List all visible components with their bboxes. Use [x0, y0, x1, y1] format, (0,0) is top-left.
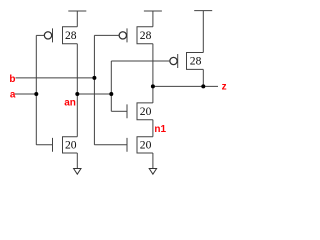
- svg-text:28: 28: [65, 29, 77, 42]
- wire b vertical column: [93, 35, 95, 144]
- junction dot node z right: [201, 84, 205, 88]
- svg-text:28: 28: [190, 55, 202, 68]
- svg-text:a: a: [10, 89, 16, 100]
- junction dot node an at inverter output: [75, 92, 79, 96]
- wire a vertical column: [35, 35, 37, 144]
- svg-text:20: 20: [65, 138, 77, 151]
- nmos N2 channel (upper stacked): [137, 103, 153, 120]
- wire b input: [16, 77, 95, 79]
- pmos P3 gate plate: [177, 54, 179, 68]
- nmos N1 channel: [63, 137, 78, 153]
- junction dot node z left: [151, 84, 155, 88]
- pmos P1 gate bubble: [44, 32, 51, 39]
- wire b to P2 gate: [94, 34, 119, 36]
- ground symbol 2: [149, 169, 156, 175]
- pmos P1 gate plate: [52, 28, 54, 42]
- svg-text:b: b: [9, 74, 15, 85]
- power vdd T-bar 3: [194, 11, 212, 53]
- pmos P3 channel: [187, 53, 204, 70]
- wire an to P3 gate: [111, 60, 170, 62]
- wire P1 source to N1 drain: [76, 44, 78, 137]
- power vdd T-bar 2: [144, 11, 162, 27]
- wire N1 source to ground: [76, 153, 78, 169]
- wire a to N1 gate: [36, 144, 52, 146]
- junction dot node an at gate column: [109, 92, 113, 96]
- svg-text:28: 28: [140, 29, 152, 42]
- junction dot node a: [34, 92, 38, 96]
- svg-text:z: z: [222, 81, 227, 92]
- wire a input: [15, 93, 36, 95]
- wire b to N3 gate: [94, 144, 127, 146]
- svg-text:20: 20: [140, 138, 152, 151]
- wire an vertical column: [110, 61, 112, 111]
- nmos N1 gate plate: [52, 138, 54, 152]
- pmos P1 channel: [63, 27, 78, 44]
- pmos P3 gate bubble: [170, 57, 177, 64]
- pmos P2 gate plate: [126, 28, 128, 42]
- wire P2 source to N2 drain: [152, 44, 154, 103]
- wire N3 source to ground: [152, 153, 154, 169]
- ground symbol 1: [74, 169, 81, 175]
- wire z output: [153, 85, 218, 87]
- wire a to P1 gate: [36, 34, 44, 36]
- nmos N2 gate plate: [126, 104, 128, 118]
- junction dot node b: [92, 76, 96, 80]
- svg-text:20: 20: [140, 105, 152, 118]
- nmos N3 gate plate: [126, 138, 128, 152]
- pmos P2 channel: [137, 27, 153, 44]
- svg-text:n1: n1: [154, 124, 166, 135]
- wire an to N2 gate: [111, 110, 127, 112]
- wire an horizontal: [77, 93, 111, 95]
- wire node n1 (N2 source to N3 drain): [152, 120, 154, 137]
- pmos P2 gate bubble: [119, 32, 126, 39]
- wire P3 source to z: [202, 69, 204, 86]
- power vdd T-bar 1: [68, 11, 86, 27]
- nmos N3 channel (lower stacked): [137, 137, 153, 153]
- svg-text:an: an: [64, 97, 76, 108]
